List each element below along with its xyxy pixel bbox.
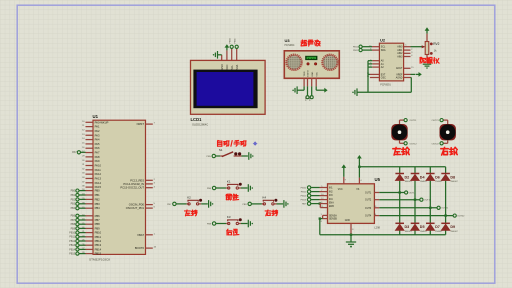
- svg-text:SENSA: SENSA: [329, 214, 337, 217]
- driver U5 body: [328, 184, 375, 224]
- terminal OUT22 (motor M2 -): [432, 142, 444, 146]
- U1 pin PA2 (pin 12): [82, 129, 100, 133]
- svg-text:PB7: PB7: [71, 219, 76, 222]
- svg-text:D5: D5: [420, 225, 425, 229]
- U5 OUT4 pin stub: [374, 214, 379, 216]
- svg-text:PB0: PB0: [71, 190, 76, 193]
- junction at diode column 2: [414, 199, 416, 201]
- svg-text:PA7: PA7: [72, 151, 77, 154]
- svg-text:1N4007: 1N4007: [435, 231, 443, 233]
- wire PB9 to K4: [251, 203, 262, 205]
- svg-text:PA2: PA2: [95, 129, 100, 133]
- diode D2 1N4007: [395, 174, 412, 184]
- terminal PA3 (U3 pin 3): [309, 86, 314, 100]
- svg-text:PB11: PB11: [301, 192, 307, 194]
- svg-text:OLED12864C: OLED12864C: [192, 123, 208, 127]
- LCD1 blue screen: [197, 72, 254, 106]
- svg-text:1N4007: 1N4007: [450, 181, 458, 183]
- svg-text:SCL: SCL: [381, 47, 386, 49]
- svg-text:D9: D9: [450, 225, 455, 229]
- svg-text:GND: GND: [312, 71, 314, 76]
- diode D9 1N4007: [441, 223, 458, 233]
- motor M1 (left wheel): [391, 124, 407, 140]
- terminal PB13 (U5 input): [301, 198, 320, 202]
- terminal PB12 (U5 input): [301, 194, 320, 198]
- U1 pin PB14 with terminal PB14: [69, 247, 101, 251]
- U1 pin PA0-WKUP (pin 10): [82, 120, 109, 124]
- svg-text:EXT: EXT: [381, 74, 386, 76]
- LCD1 pin wires: [222, 48, 237, 60]
- U1 pin PA15 (pin 38): [82, 185, 101, 189]
- power arrow (U3 VCC): [316, 86, 327, 92]
- svg-text:SDA: SDA: [236, 64, 239, 69]
- terminal OUT11: [405, 191, 417, 195]
- svg-text:VREF: VREF: [396, 74, 403, 76]
- U1 pin PB11 with terminal PB11: [69, 235, 101, 239]
- svg-text:U1: U1: [93, 114, 99, 119]
- svg-text:OUT3: OUT3: [365, 208, 372, 210]
- ground below RV2: [423, 63, 432, 65]
- U1 pin PA1 (pin 11): [82, 125, 100, 129]
- diode D5 1N4007: [411, 223, 428, 233]
- U1 pin PA7 (pin 17): [82, 151, 100, 155]
- microcontroller U1 body: [93, 120, 146, 254]
- wire PB5 to S1: [216, 155, 221, 157]
- diode D4 1N4007: [411, 174, 428, 184]
- svg-text:TRIG: TRIG: [304, 71, 306, 77]
- power +5V (LCD VCC pin): [225, 44, 230, 50]
- U1 pin PB3 with terminal PB3: [71, 202, 101, 206]
- svg-text:S1: S1: [219, 148, 223, 152]
- svg-text:PA8: PA8: [95, 155, 100, 159]
- svg-text:PA15: PA15: [95, 185, 102, 189]
- U1 pin PB13 with terminal PB13: [69, 243, 101, 247]
- U1 pin BOOT0 (pin 44): [135, 246, 157, 250]
- svg-text:PB4: PB4: [95, 206, 101, 210]
- svg-text:OSCOUT_PD1: OSCOUT_PD1: [126, 206, 145, 210]
- wire OUT4 to terminal OUT22: [379, 215, 453, 217]
- svg-text:STM32F103C8: STM32F103C8: [89, 258, 110, 262]
- power arrow above RV2: [426, 30, 428, 34]
- svg-text:PB9: PB9: [95, 226, 101, 230]
- U2 left pin stubs: [367, 45, 380, 78]
- terminal SDA above LCD: [235, 38, 239, 49]
- svg-text:PB11: PB11: [353, 50, 359, 52]
- U1 pin PA13 (pin 34): [82, 176, 101, 180]
- U1 pin PA4 (pin 14): [82, 138, 100, 142]
- wire motor M1 bottom to OUT12: [400, 140, 405, 143]
- U1 pin PA12 (pin 33): [82, 172, 101, 176]
- svg-text:RV2: RV2: [433, 42, 439, 46]
- junction at diode column 1: [399, 191, 401, 193]
- wire SENSA SENSB tie: [320, 214, 328, 223]
- ground (K1): [247, 184, 249, 192]
- red label 前进: [226, 194, 239, 200]
- svg-text:PB8: PB8: [71, 223, 76, 226]
- svg-text:ECHO: ECHO: [308, 70, 310, 77]
- wire OUT3 to terminal OUT21: [379, 207, 437, 209]
- red label 左轮: [393, 147, 409, 155]
- svg-text:PB12: PB12: [69, 240, 76, 243]
- svg-text:1N4007: 1N4007: [405, 181, 413, 183]
- svg-text:PB2: PB2: [95, 197, 101, 201]
- U1 pin VBAT (pin 1): [137, 233, 155, 237]
- svg-text:PB11: PB11: [235, 38, 237, 44]
- red label 右转: [265, 210, 277, 216]
- ground (U5 GND pin 8): [346, 223, 356, 247]
- svg-text:U5: U5: [375, 177, 381, 182]
- U1 pin PB2 with terminal PB2: [71, 197, 101, 201]
- svg-text:PA11: PA11: [95, 168, 102, 172]
- terminal OUT22: [453, 214, 465, 218]
- red label 自动/手动: [218, 140, 247, 146]
- U3 right transducer: [322, 55, 337, 70]
- U1 pin OSCOUT_PD1 (pin 6): [126, 206, 156, 210]
- svg-text:PB3: PB3: [71, 203, 76, 206]
- svg-text:PB6: PB6: [95, 214, 101, 218]
- svg-text:PB1: PB1: [71, 194, 76, 197]
- U2 right pin names: [396, 46, 403, 80]
- svg-text:K1: K1: [227, 179, 231, 183]
- U1 pin NRST (pin 7): [137, 122, 156, 126]
- ground (LCD GND pin): [213, 51, 222, 59]
- ultrasonic module U3 body: [284, 51, 339, 79]
- ground (K2): [208, 200, 210, 208]
- svg-text:PA7: PA7: [95, 151, 100, 155]
- blue cursor mark: [253, 141, 257, 145]
- svg-text:PC15-OSC32_OUT: PC15-OSC32_OUT: [120, 186, 144, 190]
- wire K2 to ground: [201, 203, 208, 205]
- power +5V (U5 VCC logic): [341, 164, 346, 183]
- svg-text:PA0-WKUP: PA0-WKUP: [95, 120, 109, 124]
- svg-text:PB0: PB0: [95, 189, 101, 193]
- svg-text:PB11: PB11: [95, 235, 102, 239]
- wire PB6 to K1: [216, 187, 227, 189]
- ground (K3): [247, 220, 249, 228]
- U3 pin names: [304, 70, 318, 77]
- U2 right pin stubs AIN1-AIN3 AOUT: [404, 49, 415, 69]
- svg-text:SDA: SDA: [381, 49, 386, 52]
- svg-text:L298: L298: [374, 225, 380, 229]
- svg-text:HCSR04: HCSR04: [285, 44, 295, 47]
- U1 pin PB10 with terminal PB10: [69, 231, 101, 235]
- svg-text:D7: D7: [435, 225, 440, 229]
- U1 pin PA14 (pin 37): [82, 181, 101, 185]
- U1 pin PA5 (pin 15): [82, 142, 100, 146]
- terminal PB11 (U5 input): [301, 190, 320, 194]
- svg-text:PB10: PB10: [95, 231, 102, 235]
- diode D3 1N4007: [395, 223, 412, 233]
- ground (U3 pin 1): [292, 86, 304, 94]
- svg-text:OUT12: OUT12: [410, 143, 418, 145]
- svg-text:LCD1: LCD1: [191, 117, 203, 122]
- svg-text:GND: GND: [345, 220, 350, 222]
- U1 pin PB4 with terminal PB4: [71, 206, 101, 210]
- wire diode column 4: [445, 167, 447, 235]
- U1 pin PA11 (pin 32): [82, 168, 101, 172]
- svg-text:OUT11: OUT11: [410, 120, 418, 122]
- svg-text:PB10: PB10: [230, 37, 232, 43]
- svg-text:PB15: PB15: [69, 253, 76, 256]
- terminal PA7 (U5 input): [302, 202, 319, 206]
- ground (S1): [248, 152, 250, 160]
- U1 pin PA10 (pin 31): [82, 164, 101, 168]
- push button K4: [262, 195, 278, 205]
- svg-text:PB10: PB10: [353, 47, 359, 49]
- svg-text:OUT22: OUT22: [457, 216, 465, 218]
- svg-text:OSCIN_PD0: OSCIN_PD0: [129, 203, 145, 207]
- svg-text:PB7: PB7: [95, 218, 101, 222]
- U3 crystal display: [305, 56, 317, 60]
- red label 右轮: [441, 147, 457, 155]
- red label 后退: [227, 229, 239, 235]
- terminal PB10 (U2 SCL): [353, 45, 372, 48]
- U5 OUT3 pin stub: [374, 206, 379, 208]
- svg-text:PB12: PB12: [301, 196, 307, 198]
- svg-text:1N4007: 1N4007: [450, 231, 458, 233]
- svg-text:GND: GND: [221, 64, 224, 70]
- svg-text:PB10: PB10: [69, 232, 76, 235]
- svg-text:PB1: PB1: [95, 193, 101, 197]
- wire diode column 3: [429, 167, 431, 235]
- svg-text:VCC: VCC: [316, 72, 318, 77]
- svg-text:AIN2: AIN2: [397, 52, 403, 55]
- diode D8 1N4007: [441, 174, 458, 184]
- terminal PB11 (U2 SDA): [353, 49, 372, 53]
- wire motor M2 top to OUT21: [443, 120, 448, 124]
- U1 pin PC13_RES (pin 2): [130, 178, 155, 182]
- LCD1 body: [191, 60, 266, 114]
- U1 pin OSCIN_PD0 (pin 5): [129, 203, 156, 207]
- svg-text:PA1: PA1: [95, 125, 100, 129]
- svg-text:U2: U2: [380, 38, 386, 43]
- U2 left pin names: [381, 47, 386, 80]
- terminal PB10 (U5 input): [301, 186, 320, 190]
- diode D6 1N4007: [426, 174, 443, 184]
- U1 pin PC15-OSC32_OUT (pin 4): [120, 186, 155, 190]
- svg-text:1N4007: 1N4007: [420, 231, 428, 233]
- wire K3 to ground: [241, 223, 248, 225]
- svg-text:K3: K3: [227, 215, 231, 219]
- U3 indicator dots: [307, 62, 318, 65]
- U5 OUT2 pin stub: [374, 198, 379, 200]
- terminal OUT11 (motor M1 +): [404, 119, 417, 123]
- svg-text:1N4007: 1N4007: [435, 181, 443, 183]
- svg-text:OUT22: OUT22: [432, 143, 440, 145]
- svg-text:D8: D8: [450, 175, 455, 179]
- wire S1 to ground: [242, 155, 248, 157]
- svg-text:AIN0: AIN0: [397, 46, 403, 49]
- diode D7 1N4007: [426, 223, 443, 233]
- svg-text:1N4007: 1N4007: [405, 231, 413, 233]
- power arrow (U2 VREF): [404, 72, 422, 77]
- svg-text:NRST: NRST: [137, 122, 145, 126]
- svg-text:OSC: OSC: [381, 77, 386, 79]
- svg-text:D2: D2: [405, 175, 410, 179]
- svg-text:PB10: PB10: [301, 187, 307, 189]
- terminal PB9 (K4): [242, 202, 251, 206]
- U1 pin PB0 with terminal PB0: [71, 189, 101, 193]
- terminal PA7: [72, 151, 85, 155]
- U5 input pin stubs: [320, 186, 328, 200]
- red label 超声波: [301, 40, 320, 46]
- svg-text:OUT4: OUT4: [365, 216, 372, 218]
- svg-text:PA14: PA14: [95, 181, 102, 185]
- wire diode column 1: [399, 167, 401, 235]
- svg-text:K2: K2: [187, 195, 191, 199]
- svg-text:PB14: PB14: [69, 248, 76, 251]
- U1 pin PA9 (pin 30): [82, 159, 100, 163]
- svg-text:PA13: PA13: [95, 176, 102, 180]
- wire VS rail to diode columns: [359, 166, 445, 168]
- motor M2 (right wheel): [440, 124, 456, 140]
- svg-text:PA12: PA12: [95, 172, 102, 176]
- switch S1 terminal PB5: [207, 154, 216, 158]
- svg-text:PC14-OSC32_IN: PC14-OSC32_IN: [123, 182, 144, 186]
- svg-text:PA9: PA9: [95, 159, 100, 163]
- U1 pin PB1 with terminal PB1: [71, 193, 101, 197]
- U1 pin PB6 with terminal PB6: [71, 214, 101, 218]
- svg-text:OUT2: OUT2: [365, 200, 372, 202]
- red label 陀螺仪: [420, 57, 439, 63]
- svg-text:1N4007: 1N4007: [420, 181, 428, 183]
- wire diode column 2: [414, 167, 416, 235]
- svg-text:PB15: PB15: [95, 252, 102, 256]
- svg-text:PB13: PB13: [95, 243, 102, 247]
- svg-text:AOUT: AOUT: [396, 67, 403, 70]
- svg-text:PB4: PB4: [71, 207, 76, 210]
- toggle switch S1: [219, 148, 242, 157]
- svg-text:VBAT: VBAT: [137, 233, 144, 237]
- svg-text:D6: D6: [435, 175, 440, 179]
- terminal PB7 (K2): [167, 202, 176, 206]
- svg-text:AIN3: AIN3: [397, 55, 403, 58]
- svg-text:PB14: PB14: [95, 247, 102, 251]
- ground rail under H-bridge: [320, 234, 446, 236]
- terminal OUT21 (motor M2 +): [432, 119, 444, 123]
- U1 pin PC14-OSC32_IN (pin 3): [123, 182, 155, 186]
- wire motor M2 bottom to OUT22: [443, 140, 448, 143]
- svg-text:U3: U3: [285, 38, 291, 43]
- svg-text:BOOT0: BOOT0: [135, 246, 145, 250]
- U1 pin PB7 with terminal PB7: [71, 218, 101, 222]
- ADC U2 body: [379, 43, 403, 81]
- U1 pin PB12 with terminal PB12: [69, 239, 101, 243]
- U1 pin PA6 (pin 16): [82, 146, 100, 150]
- svg-text:PA5: PA5: [95, 142, 100, 146]
- svg-text:PB2: PB2: [71, 198, 76, 201]
- U3 pin stubs: [304, 78, 316, 86]
- svg-text:PA6: PA6: [95, 146, 100, 150]
- svg-text:PB9: PB9: [71, 227, 76, 230]
- svg-text:VCC: VCC: [226, 64, 229, 69]
- svg-text:AIN1: AIN1: [397, 49, 403, 52]
- svg-text:PB11: PB11: [69, 236, 75, 239]
- svg-text:OUT21: OUT21: [432, 120, 440, 122]
- svg-text:SENSB: SENSB: [329, 219, 337, 221]
- svg-text:PA3: PA3: [95, 133, 100, 137]
- red label 左转: [185, 210, 197, 216]
- terminal OUT12: [420, 198, 432, 202]
- svg-text:PB6: PB6: [71, 215, 76, 218]
- wire motor M1 top to OUT11: [400, 120, 405, 124]
- svg-text:K4: K4: [263, 195, 267, 199]
- wire U2 AGND to ground rail: [404, 78, 412, 93]
- U1 pin PA8 (pin 29): [82, 155, 100, 159]
- wire K1 to ground: [241, 187, 248, 189]
- wire PB8 to K3: [216, 223, 227, 225]
- U1 pin PB15 with terminal PB15: [69, 252, 101, 256]
- svg-text:PB13: PB13: [301, 200, 307, 202]
- svg-text:PCF8591: PCF8591: [380, 84, 391, 87]
- svg-text:ENB: ENB: [329, 206, 334, 208]
- terminal PB8 (K3): [207, 222, 216, 226]
- wire OUT1 to terminal OUT11: [379, 192, 404, 194]
- power +12V (U5 VS motor supply): [357, 155, 362, 184]
- svg-text:VS: VS: [356, 189, 360, 191]
- U1 pin PA3 (pin 13): [82, 133, 100, 137]
- U1 pin PB8 with terminal PB8: [71, 222, 101, 226]
- svg-text:VCC: VCC: [338, 189, 343, 191]
- svg-text:SCL: SCL: [231, 64, 234, 69]
- svg-text:PB12: PB12: [95, 239, 102, 243]
- terminal OUT12 (motor M1 -): [404, 142, 417, 146]
- svg-text:OUT1: OUT1: [365, 193, 372, 195]
- svg-text:PA10: PA10: [95, 164, 102, 168]
- potentiometer RV2: [422, 34, 433, 63]
- svg-text:PC13_RES: PC13_RES: [130, 178, 144, 182]
- svg-text:PB8: PB8: [95, 222, 101, 226]
- U5 OUT1 pin stub: [374, 191, 379, 193]
- svg-text:PB13: PB13: [69, 244, 76, 247]
- svg-text:AGND: AGND: [396, 76, 403, 79]
- svg-text:D3: D3: [405, 225, 410, 229]
- ground (K4): [283, 200, 285, 208]
- wire U2 address pins to ground rail: [368, 61, 372, 92]
- wire K4 to ground: [277, 203, 284, 205]
- push button K3: [226, 215, 242, 225]
- push button K2: [187, 195, 203, 205]
- U1 pin PB9 with terminal PB9: [71, 226, 101, 230]
- U3 left transducer: [287, 55, 302, 70]
- wire ENA-ENB tie: [319, 202, 328, 208]
- terminal PB6 (K1): [207, 186, 216, 190]
- wire SENS to ground rail: [319, 217, 323, 234]
- terminal OUT21: [437, 206, 449, 210]
- wire OUT2 to terminal OUT12: [379, 199, 420, 201]
- svg-text:PA4: PA4: [95, 138, 100, 142]
- wire U2 AIN0 to potentiometer wiper: [404, 45, 425, 47]
- LCD1 screen bezel: [193, 70, 257, 109]
- svg-text:PB3: PB3: [95, 202, 101, 206]
- junction at diode column 3: [429, 207, 431, 209]
- LCD1 pin names GND VCC SCL SDA: [221, 64, 239, 70]
- junction at diode column 4: [444, 214, 446, 216]
- svg-text:ENA: ENA: [329, 202, 334, 205]
- wire PB7 to K2: [176, 203, 187, 205]
- ground rail under U2: [352, 88, 411, 96]
- terminal PA2 (U3 pin 2): [305, 86, 310, 100]
- U5 pin names: [329, 188, 372, 222]
- terminal SCL above LCD: [230, 37, 234, 48]
- push button K1: [226, 179, 242, 189]
